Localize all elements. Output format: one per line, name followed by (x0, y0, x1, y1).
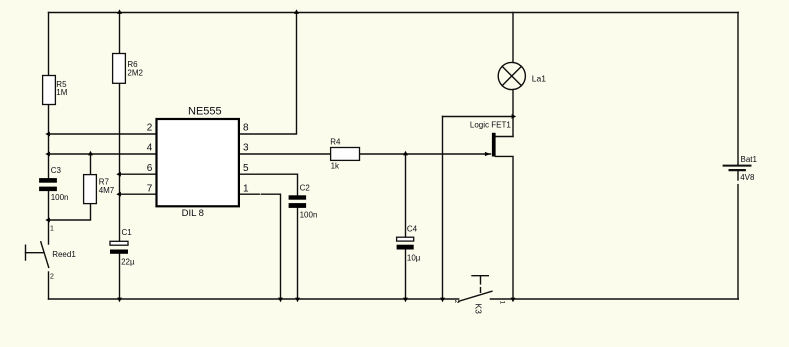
svg-text:NE555: NE555 (188, 105, 222, 117)
svg-text:Bat1: Bat1 (741, 155, 758, 164)
svg-text:5: 5 (243, 163, 249, 174)
svg-text:C4: C4 (407, 225, 418, 234)
svg-text:C1: C1 (122, 228, 133, 237)
svg-text:C3: C3 (51, 166, 62, 175)
svg-text:Reed1: Reed1 (52, 250, 76, 259)
svg-text:1: 1 (243, 183, 249, 194)
svg-text:22µ: 22µ (121, 258, 135, 267)
svg-text:1M: 1M (56, 88, 67, 97)
svg-text:3: 3 (243, 142, 249, 153)
svg-text:2: 2 (50, 274, 54, 281)
svg-text:6: 6 (147, 163, 153, 174)
svg-text:4M7: 4M7 (99, 186, 115, 195)
svg-text:100n: 100n (300, 211, 318, 220)
svg-text:K3: K3 (474, 303, 484, 314)
svg-text:4: 4 (147, 142, 153, 153)
svg-text:C2: C2 (300, 183, 311, 192)
svg-text:La1: La1 (532, 73, 546, 83)
svg-text:2: 2 (453, 300, 460, 304)
svg-text:R4: R4 (330, 138, 341, 147)
svg-text:8: 8 (243, 122, 249, 133)
svg-text:100n: 100n (51, 193, 69, 202)
svg-text:2M2: 2M2 (127, 69, 143, 78)
svg-text:4V8: 4V8 (740, 173, 755, 182)
svg-text:1: 1 (50, 226, 54, 233)
svg-text:2: 2 (147, 122, 153, 133)
svg-text:DIL 8: DIL 8 (182, 208, 204, 219)
svg-text:7: 7 (147, 183, 153, 194)
svg-text:10µ: 10µ (407, 254, 421, 263)
svg-text:1k: 1k (331, 161, 340, 170)
svg-text:1: 1 (499, 301, 506, 305)
svg-text:Logic FET1: Logic FET1 (470, 120, 511, 129)
